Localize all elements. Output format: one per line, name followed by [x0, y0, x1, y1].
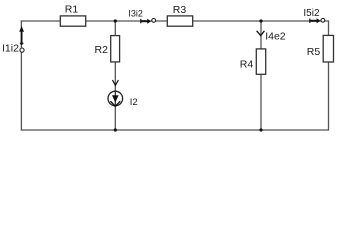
current arrow I1i2	[19, 26, 24, 45]
junction dot top R4	[259, 19, 262, 22]
junction dot bottom R4	[259, 128, 262, 131]
wire left vertical	[20, 20, 22, 130]
svg-text:I4e2: I4e2	[265, 31, 286, 43]
label R4	[240, 59, 254, 71]
label R2	[95, 44, 109, 56]
current arrow I5i2	[310, 18, 321, 23]
svg-text:R3: R3	[173, 4, 187, 16]
wire R2 branch upper	[114, 21, 116, 92]
label R5	[307, 46, 321, 58]
svg-text:R4: R4	[240, 59, 254, 71]
current arrow I3i2	[141, 19, 151, 24]
wire R4 branch	[260, 21, 262, 130]
label I5i2	[303, 8, 320, 19]
current arrow into I2 source	[112, 80, 118, 85]
label I4e2	[265, 31, 286, 43]
svg-text:R5: R5	[307, 46, 321, 58]
node terminal circle I5	[321, 18, 325, 22]
svg-text:I1i2: I1i2	[2, 42, 19, 54]
svg-text:I5i2: I5i2	[303, 8, 320, 19]
wire bottom horizontal	[21, 129, 329, 131]
svg-text:R1: R1	[65, 4, 79, 16]
label I2	[130, 97, 138, 108]
resistor R5	[323, 35, 333, 62]
node terminal circle I3	[152, 19, 156, 23]
svg-text:I3i2: I3i2	[128, 9, 143, 19]
label R3	[173, 4, 187, 16]
resistor R4	[256, 49, 265, 74]
label R1	[65, 4, 79, 16]
wire top horizontal	[21, 20, 329, 22]
label I1i2	[2, 42, 19, 54]
current source I2	[108, 91, 123, 106]
junction dot bottom I2	[114, 128, 117, 131]
wire R2 branch lower	[114, 106, 116, 131]
wire right vertical	[328, 20, 330, 130]
node terminal circle left	[20, 48, 24, 52]
svg-text:R2: R2	[95, 44, 109, 56]
resistor R2	[111, 36, 120, 62]
current arrow I4e2	[257, 31, 265, 36]
junction dot top R2	[114, 19, 117, 22]
label I3i2	[128, 9, 143, 19]
svg-text:I2: I2	[130, 97, 138, 108]
resistor R1	[60, 16, 85, 26]
resistor R3	[167, 16, 192, 26]
